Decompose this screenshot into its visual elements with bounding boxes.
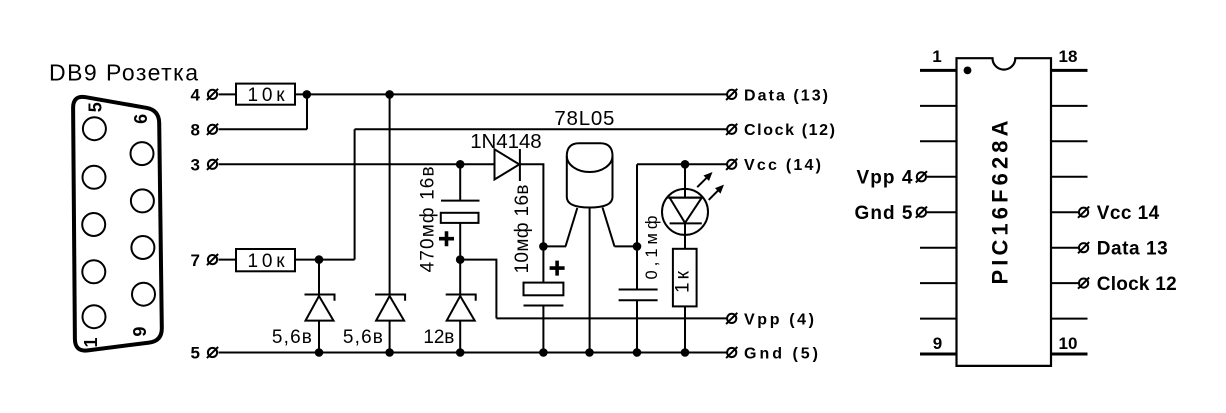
terminal pin8 xyxy=(207,124,218,135)
svg-text:10мф 16в: 10мф 16в xyxy=(512,185,533,274)
LED HL1 triangle xyxy=(670,198,702,223)
capacitor C1 top plate xyxy=(441,200,480,202)
IC pin 7 xyxy=(920,282,957,284)
svg-text:Vcc 14: Vcc 14 xyxy=(1097,203,1160,224)
node Vpp junction xyxy=(456,255,465,264)
zener VD3 cathode bar with hook xyxy=(446,295,476,301)
svg-text:9: 9 xyxy=(130,327,150,337)
IC pin 14 xyxy=(1051,211,1079,213)
svg-text:10: 10 xyxy=(1059,334,1078,353)
LED HL1 cathode bar xyxy=(670,222,702,224)
capacitor C3 top plate xyxy=(619,289,658,291)
terminal IC Gnd pin5 xyxy=(916,207,927,218)
svg-text:1: 1 xyxy=(81,337,101,347)
zener VD2 top wire from Data xyxy=(389,94,391,294)
wire Vcc node up xyxy=(636,164,638,246)
terminal pin7 xyxy=(207,254,218,265)
svg-text:Vpp 4: Vpp 4 xyxy=(857,168,913,189)
wire pin4 to R1 xyxy=(219,93,237,95)
svg-text:Vpp (4): Vpp (4) xyxy=(744,311,814,328)
DB9 hole pin6 xyxy=(132,283,155,306)
resistor R3 1k body xyxy=(673,249,697,307)
IC pin 1 xyxy=(920,69,957,72)
svg-text:12в: 12в xyxy=(423,327,454,348)
capacitor C3 top wire xyxy=(636,246,638,289)
node Clock/R2 junction xyxy=(315,255,324,264)
wire output leg to Vcc node xyxy=(615,245,638,247)
svg-text:Data 13: Data 13 xyxy=(1097,238,1168,259)
wire pin7 to R2 xyxy=(219,259,237,261)
DB9 hole pin1 xyxy=(83,305,106,328)
capacitor C3 bottom plate xyxy=(619,299,658,301)
DB9 hole pin4 xyxy=(83,166,106,189)
IC pin 5 xyxy=(927,211,957,213)
terminal pin3 xyxy=(207,159,218,170)
IC pin 12 xyxy=(1051,282,1079,284)
svg-text:78L05: 78L05 xyxy=(554,107,614,130)
svg-text:8: 8 xyxy=(191,121,200,140)
node 78L05 output junction xyxy=(633,242,642,251)
svg-text:4: 4 xyxy=(191,86,201,105)
capacitor C2 bottom wire xyxy=(542,306,544,353)
wire Clock down to R2 node xyxy=(354,129,356,259)
capacitor C1 plus sign xyxy=(439,231,454,246)
IC pin 16 xyxy=(1051,140,1088,142)
diode VD4 1N4148 triangle xyxy=(495,149,520,179)
terminal IC Clock pin12 xyxy=(1078,278,1089,289)
IC pin 6 xyxy=(920,247,957,249)
wire Vcc line xyxy=(637,163,727,165)
svg-text:1N4148: 1N4148 xyxy=(470,130,542,153)
terminal Clock(12) xyxy=(726,124,737,135)
capacitor C2 top wire xyxy=(542,246,544,282)
DB9 hole pin8 xyxy=(131,189,154,212)
IC pin 17 xyxy=(1051,105,1088,107)
diode VD4 cathode bar xyxy=(519,149,521,181)
zener VD3 bottom wire xyxy=(459,321,461,353)
node Gnd C2 xyxy=(539,348,548,357)
svg-text:Gnd 5: Gnd 5 xyxy=(855,203,913,224)
svg-text:470мф 16в: 470мф 16в xyxy=(418,166,439,272)
terminal IC Vpp pin4 xyxy=(916,171,927,182)
wire R3 to Gnd xyxy=(684,306,686,352)
zener VD2 triangle xyxy=(376,296,404,321)
node Vcc LED junction xyxy=(681,160,690,169)
svg-text:Clock 12: Clock 12 xyxy=(1097,274,1177,295)
LED HL1 circle xyxy=(662,189,708,235)
IC pin 8 xyxy=(920,318,957,320)
svg-text:10к: 10к xyxy=(248,85,286,106)
terminal pin4 xyxy=(207,89,218,100)
zener VD3 triangle xyxy=(447,296,475,321)
78L05 middle leg to ground xyxy=(589,208,591,353)
LED HL1 top wire xyxy=(684,164,686,197)
terminal IC Data pin13 xyxy=(1078,242,1089,253)
svg-text:6: 6 xyxy=(131,114,151,124)
wire Vpp line xyxy=(496,317,727,319)
resistor R2 10k body xyxy=(236,249,295,271)
DB9 hole pin9 xyxy=(131,142,154,165)
svg-text:1: 1 xyxy=(932,47,941,66)
svg-text:Vcc (14): Vcc (14) xyxy=(744,157,821,174)
terminal Vcc(14) xyxy=(726,159,737,170)
IC pin 18 xyxy=(1051,69,1088,72)
svg-text:5,6в: 5,6в xyxy=(272,327,312,348)
node Gnd R3 xyxy=(681,348,690,357)
capacitor C3 bottom wire xyxy=(636,300,638,352)
DB9 hole pin7 xyxy=(131,236,154,259)
wire diode to elbow xyxy=(520,164,544,246)
IC pin 2 xyxy=(920,105,957,107)
DB9 connector body X1 xyxy=(73,97,162,351)
capacitor C1 bottom wire xyxy=(459,223,461,260)
LED wire to R3 xyxy=(684,223,686,248)
IC pin1 mark dot xyxy=(964,67,972,75)
wire pin8 horizontal xyxy=(219,128,308,130)
zener VD3 top wire xyxy=(459,260,461,295)
LED HL1 arrow 1 xyxy=(697,175,710,188)
svg-text:7: 7 xyxy=(191,251,200,270)
terminal pin5 xyxy=(207,347,218,358)
IC pin 15 xyxy=(1051,176,1088,178)
IC pin 11 xyxy=(1051,318,1088,320)
node Gnd 78L05 xyxy=(585,348,594,357)
svg-text:0,1мф: 0,1мф xyxy=(643,216,661,280)
capacitor C2 bottom plate xyxy=(524,305,564,307)
78L05 input leg xyxy=(566,208,578,246)
svg-text:1к: 1к xyxy=(673,270,694,293)
IC pin 3 xyxy=(920,140,957,142)
wire node to 78L05 input leg xyxy=(543,245,566,247)
svg-text:18: 18 xyxy=(1059,47,1078,66)
wire Gnd line xyxy=(219,352,728,354)
node pin3/C1 junction xyxy=(456,160,465,169)
capacitor C2 plus sign xyxy=(550,261,565,276)
LED HL1 arrow 2 xyxy=(709,187,722,200)
svg-text:DB9 Розетка: DB9 Розетка xyxy=(49,60,198,86)
node Gnd VD3 xyxy=(456,348,465,357)
wire Vpp node to elbow xyxy=(460,260,496,319)
IC pin 9 xyxy=(920,353,957,356)
svg-text:Clock (12): Clock (12) xyxy=(744,122,835,139)
capacitor C2 top plate box xyxy=(524,283,564,296)
DB9 hole pin5 xyxy=(83,117,106,140)
wire Clock line xyxy=(355,128,727,130)
terminal Data(13) xyxy=(726,89,737,100)
svg-text:5: 5 xyxy=(191,344,200,363)
wire R1 to Data terminal xyxy=(295,93,727,95)
regulator U1 78L05 body xyxy=(567,143,613,207)
node Gnd C3 xyxy=(633,348,642,357)
terminal Vpp(4) xyxy=(726,313,737,324)
IC pin 4 xyxy=(927,176,957,178)
IC DD1 PIC16F628A body xyxy=(957,58,1052,366)
node Gnd VD2 xyxy=(385,348,394,357)
svg-text:3: 3 xyxy=(191,156,200,175)
svg-text:9: 9 xyxy=(933,334,942,353)
wire pin3 to diode VD4 xyxy=(219,163,495,165)
node Data junction after R1 xyxy=(303,90,312,99)
DB9 hole pin2 xyxy=(82,260,105,283)
78L05 output leg xyxy=(603,208,615,247)
svg-text:Gnd (5): Gnd (5) xyxy=(744,345,818,362)
IC pin 13 xyxy=(1051,247,1079,249)
capacitor C1 top wire xyxy=(459,164,461,200)
capacitor C1 bottom plate box xyxy=(441,213,479,223)
IC pin 10 xyxy=(1051,353,1088,356)
terminal IC Vcc pin14 xyxy=(1078,207,1089,218)
node Gnd VD1 xyxy=(315,348,324,357)
svg-text:Data (13): Data (13) xyxy=(744,87,828,104)
zener VD1 cathode bar with hook xyxy=(305,295,335,301)
node Data junction zener VD2 xyxy=(385,90,394,99)
zener VD1 bottom wire xyxy=(318,321,320,353)
DB9 hole pin3 xyxy=(82,213,105,236)
zener VD1 top wire xyxy=(318,260,320,295)
LED HL1 anode bar xyxy=(668,197,703,199)
svg-text:10к: 10к xyxy=(248,251,286,272)
resistor R1 10k body xyxy=(236,84,295,105)
wire R2 to Clock vertical xyxy=(295,259,355,261)
terminal Gnd(5) xyxy=(726,347,737,358)
svg-text:PIC16F628A: PIC16F628A xyxy=(988,120,1013,284)
zener VD1 triangle xyxy=(306,296,334,321)
svg-text:5,6в: 5,6в xyxy=(343,327,383,348)
svg-text:5: 5 xyxy=(86,102,106,112)
zener VD2 cathode bar with hook xyxy=(375,295,405,301)
wire pin8 up to Data node xyxy=(306,94,308,129)
zener VD2 bottom wire xyxy=(389,321,391,353)
node 78L05 input junction xyxy=(539,242,548,251)
